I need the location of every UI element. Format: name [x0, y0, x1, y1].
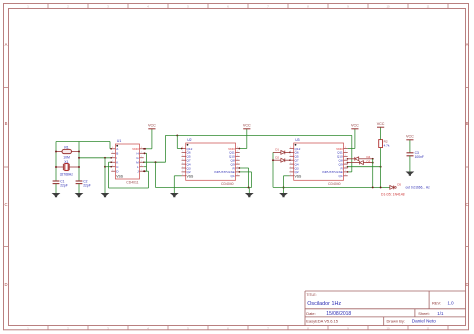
- svg-text:1.0: 1.0: [448, 301, 455, 306]
- svg-text:D1-D5: 1N4148: D1-D5: 1N4148: [381, 193, 405, 197]
- svg-text:I: I: [116, 156, 117, 160]
- svg-text:R1: R1: [64, 146, 68, 150]
- svg-text:D5: D5: [397, 183, 401, 187]
- svg-text:1: 1: [182, 155, 183, 157]
- svg-text:D1: D1: [275, 148, 279, 152]
- svg-text:15/08/2018: 15/08/2018: [326, 311, 351, 317]
- svg-text:1: 1: [345, 159, 346, 161]
- svg-text:1: 1: [112, 156, 113, 158]
- svg-text:VSS: VSS: [187, 174, 195, 178]
- svg-text:U1: U1: [117, 139, 121, 143]
- svg-text:32768Hz: 32768Hz: [60, 172, 74, 176]
- svg-text:1: 1: [237, 159, 238, 161]
- svg-text:Drawn By:: Drawn By:: [387, 318, 405, 323]
- svg-text:VCC: VCC: [148, 124, 156, 128]
- svg-text:1: 1: [182, 170, 183, 172]
- svg-text:1: 1: [290, 174, 291, 176]
- svg-text:4.7k: 4.7k: [384, 144, 390, 148]
- svg-text:C: C: [4, 202, 7, 207]
- svg-text:L: L: [137, 165, 139, 169]
- svg-text:1: 1: [345, 147, 346, 149]
- svg-text:1: 1: [345, 166, 346, 168]
- svg-text:11: 11: [427, 5, 430, 9]
- svg-text:D: D: [465, 282, 468, 287]
- svg-text:VCC: VCC: [406, 135, 414, 139]
- svg-text:1: 1: [345, 162, 346, 164]
- svg-text:11: 11: [427, 326, 430, 330]
- svg-text:Q1: Q1: [231, 174, 235, 178]
- svg-text:A: A: [466, 42, 469, 47]
- svg-text:Date:: Date:: [306, 311, 316, 316]
- svg-text:CD4040: CD4040: [221, 182, 234, 186]
- svg-text:1: 1: [141, 147, 142, 149]
- svg-text:1: 1: [141, 152, 142, 154]
- svg-text:1: 1: [237, 151, 238, 153]
- svg-text:REV:: REV:: [432, 301, 441, 306]
- svg-text:1: 1: [141, 161, 142, 163]
- svg-text:1: 1: [290, 151, 291, 153]
- svg-text:Oscilador 1Hz: Oscilador 1Hz: [307, 301, 341, 307]
- svg-text:22pF: 22pF: [60, 183, 68, 187]
- svg-text:1: 1: [237, 170, 238, 172]
- svg-text:1: 1: [112, 170, 113, 172]
- svg-text:1: 1: [112, 152, 113, 154]
- svg-text:1/1: 1/1: [437, 311, 444, 316]
- svg-text:1: 1: [141, 165, 142, 167]
- svg-text:1: 1: [141, 156, 142, 158]
- svg-text:EasyEDA V5.6.15: EasyEDA V5.6.15: [306, 318, 339, 323]
- svg-text:1: 1: [112, 165, 113, 167]
- svg-text:1: 1: [112, 161, 113, 163]
- svg-text:TITLE:: TITLE:: [306, 293, 316, 297]
- svg-text:22pF: 22pF: [83, 183, 91, 187]
- svg-text:1: 1: [141, 170, 142, 172]
- svg-text:1: 1: [345, 170, 346, 172]
- svg-text:B: B: [466, 121, 469, 126]
- svg-text:1: 1: [182, 159, 183, 161]
- svg-text:U2: U2: [187, 138, 191, 142]
- svg-text:1: 1: [182, 151, 183, 153]
- svg-text:1: 1: [290, 147, 291, 149]
- svg-text:Daniel Neto: Daniel Neto: [412, 319, 436, 324]
- svg-text:C: C: [465, 202, 468, 207]
- svg-text:VCC: VCC: [377, 122, 385, 126]
- svg-text:CD4011: CD4011: [126, 181, 138, 185]
- svg-text:VSS: VSS: [295, 174, 303, 178]
- svg-text:1: 1: [237, 155, 238, 157]
- svg-text:VDD: VDD: [132, 147, 139, 151]
- svg-text:1: 1: [290, 155, 291, 157]
- svg-text:out 0,01666... Hz: out 0,01666... Hz: [406, 186, 431, 190]
- svg-text:1: 1: [237, 162, 238, 164]
- svg-text:1: 1: [182, 162, 183, 164]
- svg-text:D: D: [4, 282, 7, 287]
- svg-text:1: 1: [182, 166, 183, 168]
- svg-text:1: 1: [237, 166, 238, 168]
- svg-text:1: 1: [290, 170, 291, 172]
- svg-text:Q1: Q1: [339, 174, 343, 178]
- svg-text:H: H: [136, 152, 138, 156]
- svg-text:1: 1: [237, 147, 238, 149]
- svg-text:D2: D2: [275, 155, 279, 159]
- svg-text:1: 1: [290, 162, 291, 164]
- svg-text:B: B: [116, 152, 118, 156]
- svg-text:1: 1: [345, 151, 346, 153]
- svg-text:B: B: [5, 121, 8, 126]
- svg-text:A: A: [5, 42, 8, 47]
- svg-text:D3: D3: [367, 159, 371, 163]
- svg-text:1: 1: [345, 155, 346, 157]
- svg-text:X1: X1: [64, 160, 68, 164]
- svg-text:1: 1: [237, 174, 238, 176]
- svg-text:Sheet:: Sheet:: [418, 311, 430, 316]
- svg-text:1: 1: [182, 174, 183, 176]
- svg-text:VCC: VCC: [243, 124, 251, 128]
- svg-text:VSS: VSS: [116, 175, 124, 179]
- svg-text:1: 1: [290, 159, 291, 161]
- svg-text:VCC: VCC: [351, 124, 359, 128]
- svg-text:1: 1: [112, 147, 113, 149]
- svg-text:1: 1: [345, 174, 346, 176]
- svg-text:CD4040: CD4040: [328, 182, 341, 186]
- svg-text:10: 10: [387, 326, 390, 330]
- svg-text:U3: U3: [295, 138, 299, 142]
- svg-text:10: 10: [387, 5, 390, 9]
- svg-text:1: 1: [290, 166, 291, 168]
- svg-text:M: M: [136, 161, 139, 165]
- svg-text:100nF: 100nF: [415, 155, 424, 159]
